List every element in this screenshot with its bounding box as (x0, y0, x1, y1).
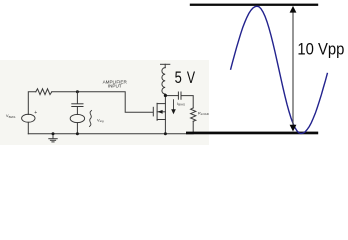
transistor Q1 gate plate (152, 107, 154, 116)
svg-text:VBIAS: VBIAS (6, 113, 16, 119)
wire: drain node down to source rail (right vertical) (164, 96, 166, 134)
top reference line of waveform (190, 4, 318, 6)
wire: Vbias top lead up to top rail (28, 92, 36, 115)
svg-text:RLOAD: RLOAD (198, 110, 210, 116)
svg-text:V: V (187, 69, 195, 87)
svg-text:5: 5 (175, 69, 182, 87)
resistor RLOAD (vertical zigzag) (191, 108, 196, 121)
schematic background panel (0, 60, 209, 145)
wire: top rail from resistor to input corner, down and to MOSFET gate (52, 92, 153, 113)
transistor Q1 body lead (157, 111, 165, 113)
capacitor C2 (output coupling, vertical plates) (165, 95, 178, 97)
transistor Q1 body arrow (points left to channel) (158, 110, 163, 114)
node A (input coupling junction dot) (76, 90, 79, 93)
inductor L1 (drain choke) with 5V T-bar terminal (161, 63, 170, 65)
node: Vsig bottom junction dot (76, 132, 79, 135)
svg-text:10 Vpp: 10 Vpp (297, 40, 344, 59)
transistor Q1 drain lead (157, 103, 165, 105)
svg-text:+: + (34, 110, 37, 116)
wire: bottom rail (28, 133, 193, 135)
transistor Q1 source lead (157, 119, 165, 121)
ground (stub and bars) (52, 134, 54, 139)
source Vbias (DC source ellipse) (22, 114, 35, 122)
wire: Vsig to bottom rail (76, 123, 78, 134)
node: MOSFET source rail junction dot (164, 132, 167, 135)
bottom reference line / ground bar (186, 132, 318, 135)
node: drain node dot (164, 94, 167, 97)
transistor Q1 channel plate (156, 103, 158, 120)
wire: Vbias to bottom rail (27, 122, 29, 134)
Vpp measurement arrow (double headed) (292, 9, 294, 128)
svg-text:IBIAS: IBIAS (177, 101, 185, 107)
sine wave (output waveform) (231, 6, 328, 133)
IBIAS current arrow (171, 99, 176, 114)
wire: RLOAD to ground bar (192, 121, 194, 132)
svg-text:INPUT: INPUT (108, 84, 122, 89)
capacitor C1 (input coupling, horizontal plates) (72, 103, 83, 105)
node: ground junction dot (52, 132, 55, 135)
resistor R1 (series source resistor, horizontal zigzag) (36, 89, 52, 95)
source Vsig (AC source ellipse) (70, 114, 84, 122)
wire: junction down to coupling cap (76, 92, 78, 104)
svg-text:Vsig: Vsig (97, 117, 104, 123)
wire: cap to Vsig source (76, 107, 78, 115)
AC sine squiggle beside Vsig (90, 111, 92, 127)
